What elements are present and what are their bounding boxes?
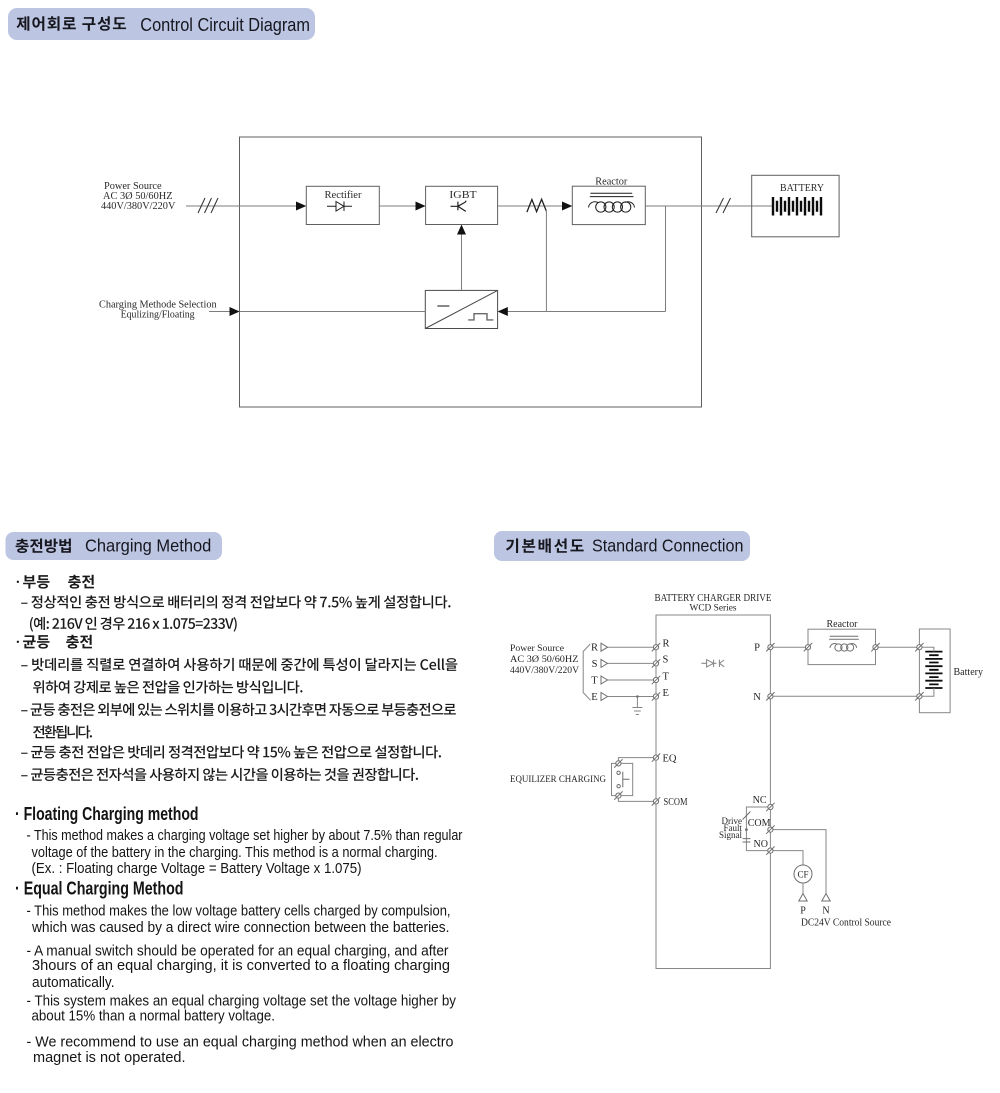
svg-text:- This method makes the low vo: - This method makes the low voltage batt… — [27, 902, 451, 919]
header badge: Charging Method — [6, 532, 223, 560]
svg-text:· Floating Charging method: · Floating Charging method — [15, 804, 199, 824]
svg-text:Rectifier: Rectifier — [325, 189, 362, 201]
wire: charging method selection input — [209, 311, 231, 313]
equalizer switch box — [612, 763, 633, 795]
diode symbol in rectifier — [327, 202, 352, 212]
terminal battery P — [915, 643, 923, 651]
kr line 4 — [33, 680, 302, 693]
kr line 7 — [21, 745, 441, 758]
arrowhead into rectifier — [296, 202, 306, 211]
terminal NO — [766, 846, 774, 854]
wire SCOM to switch — [618, 796, 656, 802]
battery cell stack — [925, 652, 942, 688]
svg-text:R: R — [663, 639, 670, 650]
wire reactor to battery — [876, 646, 920, 648]
reactor winding loops — [589, 202, 599, 208]
heading equal charge (KR) word1 — [23, 635, 49, 649]
svg-text:- This method makes a charging: - This method makes a charging voltage s… — [27, 827, 463, 844]
switch lever — [623, 772, 630, 788]
terminal reactor left — [804, 643, 812, 651]
svg-text:EQUILIZER CHARGING: EQUILIZER CHARGING — [510, 775, 606, 785]
heading floating charge (KR) word1 — [23, 575, 49, 589]
terminal COM — [766, 825, 774, 833]
svg-text:N: N — [822, 906, 829, 917]
terminal EQ — [652, 753, 660, 761]
wire: IGBT to reactor — [498, 205, 565, 207]
terminal battery N — [915, 692, 923, 700]
svg-text:NC: NC — [753, 795, 767, 806]
feedback wire: vertical from reactor output — [665, 206, 667, 312]
header badge: Standard Connection — [494, 531, 750, 561]
input triangle E — [601, 693, 608, 701]
IGBT U2 box — [426, 186, 498, 224]
COM junction dot — [745, 828, 748, 831]
svg-text:T: T — [591, 676, 598, 687]
svg-text:Control Circuit Diagram: Control Circuit Diagram — [140, 14, 310, 35]
svg-text:Charging Method: Charging Method — [85, 536, 211, 556]
svg-text:EQ: EQ — [663, 753, 677, 764]
terminal SCOM — [652, 797, 660, 805]
wire NO to CF — [770, 851, 803, 865]
svg-text:Signal: Signal — [719, 830, 743, 840]
terminal S on enclosure — [652, 659, 660, 667]
triangle N source — [822, 894, 830, 902]
rectifier U1 box — [306, 186, 379, 224]
battery stub wires — [919, 647, 934, 696]
svg-text:· Equal Charging Method: · Equal Charging Method — [15, 878, 184, 898]
wire input E — [608, 696, 657, 698]
double slash marks on battery wire — [716, 198, 731, 213]
reactor box (standard connection) — [808, 629, 876, 664]
IGBT symbol — [451, 201, 467, 212]
arrowhead into controller right edge — [498, 307, 508, 316]
svg-text:(Ex. : Floating charge Voltage: (Ex. : Floating charge Voltage = Battery… — [32, 860, 362, 877]
svg-text:S: S — [663, 655, 669, 666]
NO contact bars — [743, 839, 751, 842]
breaker zigzag on wire — [527, 199, 547, 212]
feedback wire: horizontal into controller — [506, 311, 666, 313]
terminal R on enclosure — [652, 643, 660, 651]
reactor winding (right) — [830, 644, 837, 648]
wire: reactor to battery — [645, 205, 773, 207]
controller diagonal — [425, 290, 497, 328]
svg-text:DC24V Control Source: DC24V Control Source — [801, 918, 892, 929]
input triangle S — [601, 659, 608, 667]
heading floating charge (KR) word2 — [68, 575, 94, 589]
wire COM to N source — [770, 830, 826, 894]
kr line 2 — [30, 617, 237, 632]
wire CF to P source — [802, 883, 804, 894]
reactor L1 box — [572, 186, 645, 224]
badge3 korean title — [506, 538, 584, 553]
diode symbol inside drive — [701, 660, 724, 667]
kr line 6 — [33, 725, 92, 738]
arrowhead up into IGBT — [457, 225, 466, 235]
battery box (standard connection) — [919, 629, 950, 713]
svg-text:CF: CF — [797, 869, 808, 879]
svg-text:S: S — [592, 659, 598, 670]
junction dot on E — [636, 695, 639, 698]
input triangle T — [601, 676, 608, 684]
brace for 3-phase inputs — [583, 644, 590, 700]
battery cell bars — [773, 197, 821, 216]
arrowhead at enclosure edge — [230, 307, 240, 316]
header badge: Control Circuit Diagram — [8, 8, 315, 40]
arrowhead into reactor — [562, 202, 572, 211]
wire input R — [608, 646, 657, 648]
controller U3 box — [425, 290, 497, 328]
wire: power input to rectifier — [186, 205, 303, 207]
svg-text:about 15% than a normal batte: about 15% than a normal battery voltage. — [32, 1007, 276, 1024]
svg-text:which was caused by a direct w: which was caused by a direct wire connec… — [31, 919, 449, 936]
terminal P — [766, 643, 774, 651]
kr line 8 — [21, 768, 418, 781]
svg-text:SCOM: SCOM — [664, 797, 689, 808]
svg-text:automatically.: automatically. — [32, 974, 115, 991]
svg-text:R: R — [591, 643, 598, 654]
svg-text:E: E — [591, 692, 597, 703]
battery BT1 box — [752, 175, 839, 237]
heading equal charge (KR) — [17, 641, 19, 643]
terminal reactor right — [871, 643, 879, 651]
controller DC minus symbol — [437, 305, 449, 307]
kr line 5 — [21, 703, 456, 716]
svg-text:WCD Series: WCD Series — [690, 604, 737, 614]
terminal switch bottom — [614, 791, 622, 799]
svg-text:BATTERY: BATTERY — [780, 182, 824, 194]
wire: rectifier to IGBT — [379, 205, 422, 207]
svg-text:P: P — [754, 643, 760, 654]
feedback wire: vertical from breaker — [545, 210, 547, 312]
switch contacts circles — [617, 771, 620, 774]
input triangle R — [601, 643, 608, 651]
3-phase slash marks — [198, 198, 218, 213]
svg-text:IGBT: IGBT — [449, 189, 476, 201]
svg-text:440V/380V/220V: 440V/380V/220V — [101, 201, 176, 212]
wire input S — [608, 662, 657, 664]
svg-text:- We recommend to use an equal: - We recommend to use an equal charging … — [27, 1033, 454, 1050]
terminal NC — [766, 803, 774, 811]
wire N to battery — [770, 695, 919, 697]
heading floating charge (KR) — [17, 581, 19, 583]
svg-text:voltage of the battery in the: voltage of the battery in the charging. … — [32, 844, 438, 861]
terminal switch top — [614, 759, 622, 767]
triangle P source — [799, 894, 807, 902]
arrowhead into IGBT — [416, 202, 426, 211]
svg-text:AC 3Ø 50/60HZ: AC 3Ø 50/60HZ — [510, 655, 579, 665]
terminal N — [766, 692, 774, 700]
NC contact slash — [743, 812, 751, 820]
ground tap wire on E — [636, 697, 638, 708]
svg-text:3hours of an equal charging, i: 3hours of an equal charging, it is conve… — [32, 957, 450, 974]
badge1 korean title — [17, 16, 127, 31]
svg-text:P: P — [800, 906, 806, 917]
wire input T — [608, 679, 657, 681]
svg-text:BATTERY CHARGER DRIVE: BATTERY CHARGER DRIVE — [655, 593, 772, 604]
kr line 3 — [21, 658, 457, 671]
svg-text:Reactor: Reactor — [595, 177, 627, 188]
CF relay coil circle — [794, 865, 812, 883]
kr line 1 — [21, 595, 450, 608]
wire EQ to switch — [618, 758, 656, 764]
svg-text:Equlizing/Floating: Equlizing/Floating — [121, 310, 195, 321]
svg-text:COM: COM — [748, 818, 771, 829]
svg-text:N: N — [753, 692, 761, 703]
ground symbol — [632, 708, 642, 715]
svg-text:Power Source: Power Source — [510, 644, 564, 654]
terminal E on enclosure — [652, 692, 660, 700]
heading equal charge (KR) word2 — [66, 635, 92, 649]
terminal T on enclosure — [652, 676, 660, 684]
WCD drive enclosure box — [656, 615, 770, 969]
badge2 korean title — [16, 539, 71, 553]
svg-text:E: E — [663, 688, 669, 699]
svg-text:Reactor: Reactor — [827, 619, 859, 630]
svg-text:Battery: Battery — [954, 667, 984, 678]
reactor core lines — [590, 193, 634, 196]
svg-text:NO: NO — [754, 839, 768, 850]
wire: selection to controller — [240, 311, 426, 313]
wire P to reactor — [770, 646, 808, 648]
svg-text:Standard Connection: Standard Connection — [592, 536, 743, 556]
controller pulse symbol — [468, 314, 493, 320]
svg-text:magnet is not operated.: magnet is not operated. — [33, 1049, 186, 1066]
relay contact bracket — [746, 807, 768, 851]
control wire: controller to IGBT — [461, 230, 463, 290]
reactor core lines (right) — [829, 636, 859, 639]
svg-text:T: T — [663, 671, 670, 682]
outer enclosure box — [240, 137, 702, 407]
svg-text:440V/380V/220V: 440V/380V/220V — [510, 666, 579, 676]
